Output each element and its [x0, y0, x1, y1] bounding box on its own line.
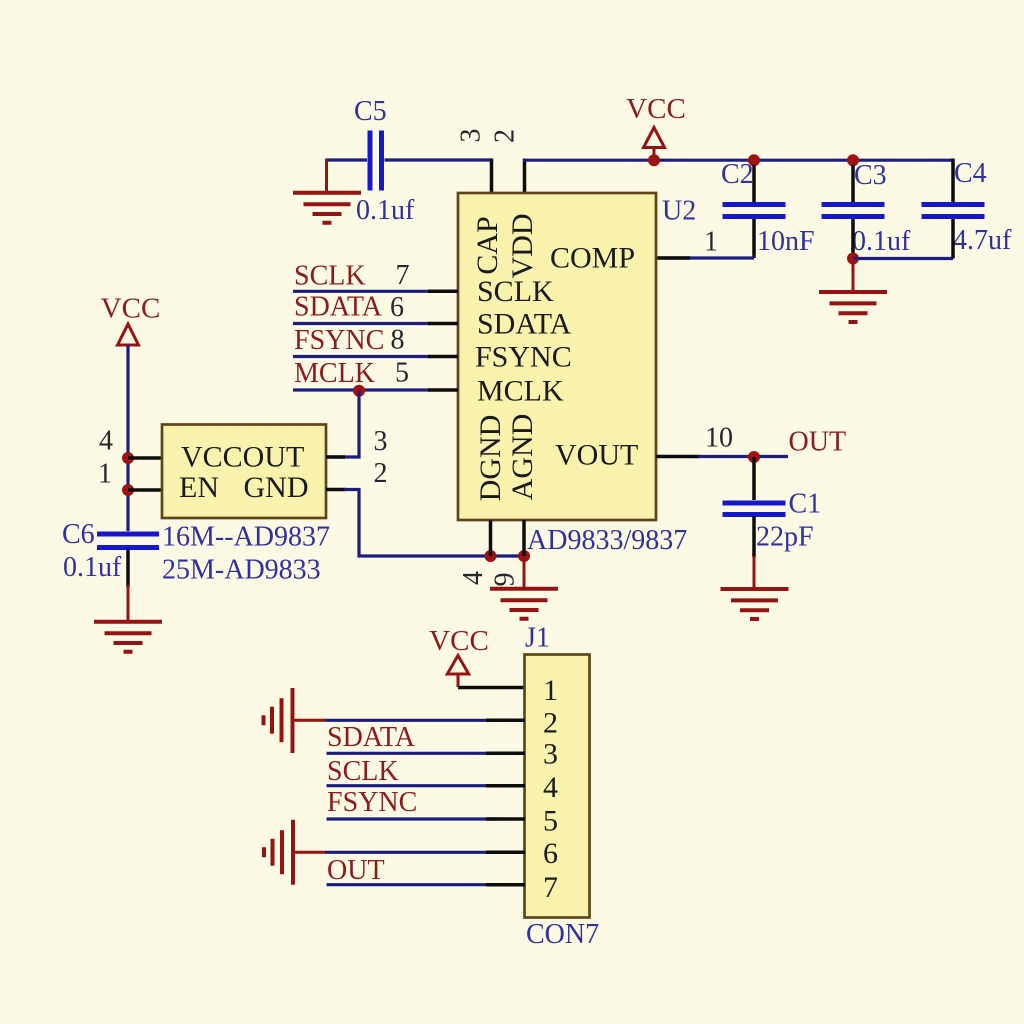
svg-text:C5: C5 [354, 96, 387, 127]
pin 3 stub J1 [486, 752, 525, 756]
svg-text:C4: C4 [954, 158, 987, 189]
svg-text:3: 3 [374, 426, 388, 457]
VCC symbol (left) [101, 293, 161, 346]
pin AGND (bottom of U2) [522, 520, 526, 556]
ground stub J1 pin 2 [293, 719, 327, 722]
ground (C1) [721, 589, 789, 619]
junction dot oscillator pin 4 [122, 452, 134, 464]
svg-text:1: 1 [98, 459, 112, 490]
svg-text:OUT: OUT [789, 427, 847, 458]
svg-text:SDATA: SDATA [294, 292, 383, 323]
svg-text:9: 9 [490, 573, 521, 587]
svg-text:10: 10 [705, 422, 733, 453]
svg-text:8: 8 [391, 325, 405, 356]
junction dot C3 bottom [847, 253, 859, 265]
svg-text:0.1uf: 0.1uf [852, 226, 911, 257]
svg-text:1: 1 [543, 674, 558, 707]
wire MCLK [293, 388, 430, 391]
svg-text:J1: J1 [525, 623, 550, 654]
svg-text:2: 2 [543, 706, 558, 739]
svg-text:FSYNC: FSYNC [294, 325, 384, 356]
junction dot DGND [485, 550, 497, 562]
svg-text:CAP: CAP [471, 216, 504, 274]
svg-text:4: 4 [458, 571, 489, 585]
capacitor C3 [822, 160, 912, 257]
svg-text:22pF: 22pF [756, 522, 814, 553]
wire VDD rail [523, 159, 953, 162]
svg-text:C2: C2 [721, 159, 754, 190]
svg-text:VOUT: VOUT [555, 439, 638, 472]
wire C4 bottom lead [951, 219, 955, 259]
svg-text:DGND: DGND [474, 415, 507, 502]
pin 8 stub [428, 355, 458, 359]
pin DGND (bottom of U2) [489, 520, 493, 556]
wire SCLK [293, 290, 430, 293]
oscillator X1 body [162, 425, 326, 519]
capacitor C2 [721, 159, 815, 257]
svg-text:SDATA: SDATA [477, 308, 572, 341]
sideways ground (J1 pin 2) [264, 688, 293, 753]
ground stub C1 [753, 556, 756, 589]
svg-text:SCLK: SCLK [294, 261, 366, 292]
svg-text:25M-AD9833: 25M-AD9833 [162, 555, 321, 586]
svg-text:VDD: VDD [506, 214, 539, 279]
wire C5 left to ground stub [326, 158, 368, 161]
svg-text:VCCOUT: VCCOUT [181, 441, 304, 474]
wire oscillator pin3 to MCLK [326, 391, 359, 457]
svg-text:CON7: CON7 [526, 919, 599, 950]
svg-text:1: 1 [704, 227, 718, 258]
svg-text:SCLK: SCLK [327, 756, 399, 787]
ground stub AGND [523, 556, 526, 589]
svg-text:0.1uf: 0.1uf [63, 552, 122, 583]
wire C1 top lead [752, 457, 756, 500]
wire J1 pin 7 [327, 883, 501, 886]
ground (C3) [819, 292, 887, 322]
svg-text:16M--AD9837: 16M--AD9837 [162, 522, 330, 553]
capacitor C5 [354, 96, 415, 226]
connector J1 body [525, 655, 590, 918]
svg-text:2: 2 [374, 458, 388, 489]
pin 1 stub COMP [656, 256, 690, 260]
svg-text:AD9833/9837: AD9833/9837 [527, 525, 687, 556]
svg-text:5: 5 [543, 805, 558, 838]
wire J1 pin 6 [325, 851, 500, 854]
junction dot MCLK / oscillator output [353, 385, 365, 397]
ground stub J1 pin 6 [293, 851, 326, 854]
VCC symbol (J1) [429, 625, 489, 687]
pin 3 of U2 (top) [490, 159, 494, 194]
wire C3 bottom to C4 bottom [853, 257, 953, 260]
wire C5 right to pin 3 [385, 158, 493, 161]
svg-text:U2: U2 [662, 196, 696, 227]
wire J1 pin 4 [327, 784, 501, 787]
junction dot C2 top [748, 154, 760, 166]
capacitor C4 [922, 158, 1013, 256]
svg-text:7: 7 [543, 871, 558, 904]
pin 10 stub VOUT [656, 455, 700, 459]
svg-text:0.1uf: 0.1uf [356, 195, 415, 226]
wire J1 pin 2 [325, 719, 500, 722]
junction dot C3 top [847, 154, 859, 166]
pin 6 stub [428, 322, 458, 326]
sideways ground (J1 pin 6) [264, 820, 293, 885]
wire C3 top lead [851, 165, 855, 202]
svg-text:C3: C3 [854, 160, 887, 191]
pin 7 stub [428, 290, 458, 294]
wire C2 top lead [752, 165, 756, 202]
svg-text:MCLK: MCLK [477, 375, 564, 408]
junction dot AGND [518, 550, 530, 562]
svg-text:FSYNC: FSYNC [327, 787, 417, 818]
svg-text:4: 4 [99, 426, 113, 457]
pin 2 stub J1 [486, 719, 525, 723]
junction dot VCC/VDD [648, 154, 660, 166]
svg-text:4.7uf: 4.7uf [953, 225, 1012, 256]
svg-text:3: 3 [456, 129, 487, 143]
VCC symbol (top) [626, 93, 686, 155]
svg-text:AGND: AGND [506, 414, 539, 501]
pin 4 stub oscillator [128, 456, 162, 460]
wire C2 bottom lead [752, 219, 756, 258]
pin 2 stub oscillator [326, 488, 345, 492]
svg-text:VCC: VCC [429, 625, 489, 657]
svg-text:EN: EN [179, 471, 219, 504]
wire VCC left vertical [126, 345, 129, 531]
svg-text:SDATA: SDATA [327, 722, 416, 753]
ground (C5) [293, 193, 361, 223]
svg-text:OUT: OUT [327, 855, 385, 886]
IC U2 body [458, 193, 656, 520]
svg-text:2: 2 [490, 129, 521, 143]
svg-text:10nF: 10nF [757, 226, 815, 257]
wire SDATA [293, 322, 430, 325]
junction dot VOUT/C1 [748, 451, 760, 463]
svg-text:6: 6 [543, 837, 558, 870]
pin 7 stub J1 [486, 883, 525, 887]
svg-text:7: 7 [396, 260, 410, 291]
wire COMP to C2 [659, 256, 754, 259]
junction dot oscillator pin 1 [122, 484, 134, 496]
wire C4 top lead [951, 159, 955, 203]
wire VOUT to OUT [698, 455, 788, 458]
wire oscillator pin2 to AGND net [344, 490, 525, 557]
svg-text:FSYNC: FSYNC [475, 341, 572, 374]
wire C1 bottom lead [752, 516, 756, 558]
wire J1 pin 5 [327, 817, 501, 820]
pin 3 stub oscillator [326, 455, 345, 459]
svg-text:6: 6 [390, 292, 404, 323]
ground (AGND) [490, 589, 558, 619]
svg-text:SCLK: SCLK [477, 275, 554, 308]
ground stub C3 [852, 259, 855, 293]
wire C3 bottom lead [851, 219, 855, 259]
svg-text:VCC: VCC [626, 93, 686, 125]
svg-text:C6: C6 [62, 519, 95, 550]
capacitor C6 [62, 519, 159, 583]
pin 5 stub [428, 388, 458, 392]
svg-text:4: 4 [543, 771, 558, 804]
pin 6 stub J1 [486, 851, 525, 855]
svg-text:GND: GND [244, 471, 309, 504]
capacitor C1 [723, 489, 822, 553]
wire FSYNC [293, 355, 430, 358]
svg-text:C1: C1 [789, 489, 822, 520]
pin 4 stub J1 [486, 784, 525, 788]
wire J1 pin 1 [458, 686, 525, 690]
svg-text:VCC: VCC [101, 293, 161, 325]
wire C6 bottom lead [126, 549, 130, 587]
svg-text:COMP: COMP [550, 242, 635, 275]
svg-text:5: 5 [395, 358, 409, 389]
pin 2 of U2 (top) [523, 159, 527, 194]
svg-text:3: 3 [543, 738, 558, 771]
svg-text:MCLK: MCLK [294, 358, 375, 389]
ground stub C6 [127, 585, 130, 622]
ground stub C5 [325, 159, 328, 192]
wire J1 pin 3 [327, 752, 501, 755]
pin 5 stub J1 [486, 817, 525, 821]
pin 1 stub oscillator [128, 488, 162, 492]
ground (C6) [94, 622, 162, 652]
